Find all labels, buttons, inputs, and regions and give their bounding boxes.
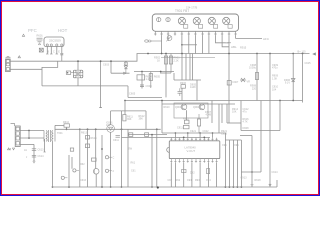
diode D603 xyxy=(124,61,127,73)
svg-text:470u: 470u xyxy=(272,67,278,70)
bridge rectifier D602 xyxy=(73,70,82,78)
junction gnd f xyxy=(233,186,235,188)
junction pin2 lower xyxy=(165,53,167,55)
wire v87.5 xyxy=(87,129,89,187)
capacitor C910 xyxy=(166,36,172,42)
svg-text:C93: C93 xyxy=(187,179,192,182)
label R909 xyxy=(272,75,279,81)
label C908 xyxy=(249,64,257,70)
junction riser 10 xyxy=(212,132,214,134)
label SW xyxy=(128,148,133,151)
svg-text:C96: C96 xyxy=(234,144,239,147)
wire T601 bottom left lead xyxy=(43,139,45,152)
ground arrow v252 xyxy=(251,185,253,187)
wire v146 xyxy=(145,111,147,129)
junction y100 c xyxy=(292,100,294,102)
label IC601 xyxy=(106,122,113,127)
resistor R614 xyxy=(85,136,97,140)
wire right block v241 xyxy=(240,140,242,187)
svg-text:4.7K: 4.7K xyxy=(243,121,248,124)
wire cn row2 xyxy=(20,137,44,139)
junction B+ 294 xyxy=(292,53,294,55)
wire feedback pair top xyxy=(128,134,167,136)
wire v69 xyxy=(68,155,70,187)
svg-text:1.5K: 1.5K xyxy=(272,77,277,80)
resistor R911 xyxy=(183,118,189,124)
resistor R902 xyxy=(154,56,168,64)
node warning mark xyxy=(22,34,24,36)
wire v182b xyxy=(181,88,183,100)
junction gnd c xyxy=(157,186,159,188)
wire right block v239 xyxy=(236,140,238,187)
wire v85 lower label xyxy=(80,163,87,182)
wire v174 xyxy=(173,73,175,80)
IC902 body xyxy=(167,141,220,159)
svg-text:9.1V: 9.1V xyxy=(285,82,290,85)
resistor R912 xyxy=(197,114,200,133)
wire sense bus y129 xyxy=(55,128,161,130)
svg-text:39K: 39K xyxy=(139,118,144,121)
node CN602 hook xyxy=(11,124,15,127)
wire pin5 drop xyxy=(181,36,183,54)
svg-text:C923: C923 xyxy=(221,133,228,136)
wire mid bus y104 xyxy=(162,103,235,105)
label C613 left xyxy=(24,149,28,159)
IC902 bottom pins xyxy=(170,159,218,163)
junction riser 3 xyxy=(183,137,185,139)
svg-text:C911: C911 xyxy=(177,126,183,129)
wire right v270 xyxy=(269,54,271,187)
svg-text:R605: R605 xyxy=(154,75,161,79)
svg-text:R906: R906 xyxy=(180,82,187,85)
wire ground bus xyxy=(53,186,278,188)
label C603 xyxy=(103,64,110,67)
wire pin riser 10 xyxy=(212,133,214,138)
diode D610 xyxy=(105,156,114,160)
diode D613 xyxy=(73,169,79,172)
label R916 xyxy=(243,118,250,124)
svg-text:C613: C613 xyxy=(38,149,45,152)
svg-text:C616: C616 xyxy=(80,179,87,182)
label Q901 xyxy=(175,106,182,109)
wire AC line xyxy=(10,60,100,62)
capacitor C907 xyxy=(227,81,239,85)
junction y129 b xyxy=(95,128,97,130)
junction y100 b xyxy=(279,100,281,102)
wire pin riser 1 xyxy=(174,133,176,138)
T901 focus pot VR1 xyxy=(178,17,188,28)
junction bridge top xyxy=(77,60,79,62)
svg-text:ABL: ABL xyxy=(231,45,237,49)
transistor Q901 xyxy=(181,104,187,110)
wire pin d down xyxy=(191,163,193,187)
wire snub drop xyxy=(110,61,112,73)
label bot right b xyxy=(255,179,262,182)
junction cn a xyxy=(28,130,30,132)
wire low rail xyxy=(128,96,162,98)
flyback transformer T901 body xyxy=(152,14,238,31)
wire pin c down xyxy=(183,163,185,187)
svg-text:C614: C614 xyxy=(38,155,45,158)
label ic top c xyxy=(221,130,228,136)
wire mid rail xyxy=(134,71,174,73)
resistor R605 xyxy=(149,72,160,89)
junction v152 top xyxy=(151,134,153,136)
connector CN601 AC input xyxy=(6,59,11,72)
zener D906 xyxy=(284,79,295,85)
svg-text:C915: C915 xyxy=(305,62,312,65)
wire v125 mid xyxy=(124,101,126,115)
ground arrow left xyxy=(33,161,35,163)
capacitor C612 xyxy=(145,133,149,137)
wire v227 xyxy=(226,104,228,123)
junction gnd g2 xyxy=(241,186,243,188)
wire v121 xyxy=(121,111,123,187)
wire h130 xyxy=(241,130,280,132)
junction riser 1 xyxy=(175,132,177,134)
label bot right a xyxy=(241,177,248,180)
svg-text:C913: C913 xyxy=(241,177,248,180)
svg-text:R921: R921 xyxy=(221,130,228,133)
wire x142 drop xyxy=(141,72,143,89)
junction B+ mid xyxy=(147,53,149,55)
svg-text:C: C xyxy=(53,51,55,54)
label heater xyxy=(226,41,230,45)
wire v152 xyxy=(151,135,153,187)
resistor R903 xyxy=(169,54,180,74)
capacitor C604 xyxy=(140,84,152,88)
label right block xyxy=(222,144,239,147)
thermistor TH601 xyxy=(66,71,73,74)
node cap rail end tick xyxy=(99,107,102,109)
svg-text:104: 104 xyxy=(272,88,277,91)
wire h135 right xyxy=(240,135,252,137)
T901 pins 1-13 xyxy=(154,31,237,35)
wire v280 xyxy=(279,101,281,131)
resistor R908 xyxy=(255,73,258,80)
node live mark xyxy=(18,56,20,58)
junction y129 d xyxy=(156,128,158,130)
wire v261 xyxy=(260,101,262,173)
junction mid rail a xyxy=(141,71,143,73)
label B+ xyxy=(298,49,307,53)
label ic top b xyxy=(203,130,210,133)
wire v212 xyxy=(211,101,213,124)
wire pin8 drop xyxy=(202,36,204,54)
svg-text:2.2K: 2.2K xyxy=(174,59,179,62)
svg-text:C611: C611 xyxy=(113,139,119,142)
label AFC xyxy=(240,37,270,50)
svg-text:4148: 4148 xyxy=(190,86,196,89)
svg-text:V-OUT: V-OUT xyxy=(187,149,196,153)
junction B+ 302 xyxy=(302,53,304,55)
svg-text:AFC: AFC xyxy=(263,37,270,41)
wire pin f down xyxy=(207,163,209,187)
svg-text:R610: R610 xyxy=(63,121,70,124)
label ic top a xyxy=(190,130,197,133)
resistor R610 xyxy=(63,121,70,127)
svg-text:C921: C921 xyxy=(190,130,197,133)
junction pin5 tap xyxy=(181,44,183,46)
capacitor C906 xyxy=(178,88,183,96)
wire right block h140 xyxy=(225,139,241,141)
wire v162 xyxy=(161,101,163,134)
wire x128 drop xyxy=(127,86,129,98)
junction B+ 270 xyxy=(269,53,271,55)
capacitor C614 xyxy=(32,155,44,158)
wire v52 sec xyxy=(52,142,54,188)
junction bus i xyxy=(121,186,123,188)
label bot right c xyxy=(272,171,279,174)
svg-text:39K: 39K xyxy=(127,118,132,121)
wire pin riser 4 xyxy=(187,133,189,138)
wire pin riser 8 xyxy=(203,136,205,138)
IC902 top pins xyxy=(170,138,218,141)
resistor R611 xyxy=(123,115,134,122)
wire v128 low xyxy=(127,129,129,187)
wire pin riser 3 xyxy=(183,136,185,138)
wire v79.8 xyxy=(79,129,81,187)
wire pin b down xyxy=(174,163,176,187)
wire pin11 ABL xyxy=(222,36,229,47)
wire aux y57 xyxy=(161,57,215,59)
svg-text:Q902: Q902 xyxy=(193,106,200,109)
wire pin2 drop xyxy=(161,36,163,54)
connector lug B+ xyxy=(312,52,316,55)
wire h172 xyxy=(241,171,261,173)
wire v110 down xyxy=(110,133,112,188)
svg-text:1K: 1K xyxy=(157,59,160,62)
junction gnd e xyxy=(229,186,231,188)
svg-text:R93: R93 xyxy=(195,179,200,182)
wire right v294 xyxy=(292,54,294,101)
label C912 xyxy=(243,108,250,114)
resistor R906 xyxy=(180,82,187,88)
resistor R619 xyxy=(85,144,89,148)
svg-text:R62: R62 xyxy=(80,163,85,166)
wire pin10 heater xyxy=(216,36,232,43)
wire v219 xyxy=(218,104,220,133)
svg-text:2SC5929: 2SC5929 xyxy=(49,39,61,43)
svg-text:R61: R61 xyxy=(131,162,136,165)
wire v277 xyxy=(276,180,278,187)
wire v186 xyxy=(185,54,187,81)
transistor Q902 xyxy=(199,104,205,110)
capacitor C611 xyxy=(113,136,120,142)
shunt regulator IC601 xyxy=(107,125,115,133)
control block outline xyxy=(174,103,208,118)
wire pin5 tap xyxy=(182,44,197,46)
label C910a xyxy=(272,86,279,92)
wire loop left xyxy=(42,61,128,86)
transformer T601 xyxy=(44,130,55,142)
T901 screen pot VR4 xyxy=(223,17,233,28)
junction y129 a xyxy=(87,128,89,130)
wire T601 sec top xyxy=(55,125,64,130)
junction riser 7 xyxy=(199,132,201,134)
svg-text:R918: R918 xyxy=(255,179,262,182)
svg-text:R601: R601 xyxy=(37,34,44,38)
junction snub xyxy=(110,60,112,62)
junction B+ 229 xyxy=(228,53,230,55)
junction R610 xyxy=(66,128,68,130)
svg-text:B+ 115: B+ 115 xyxy=(298,49,307,53)
svg-text:10K: 10K xyxy=(232,111,237,114)
label row1 xyxy=(131,162,137,173)
T901 focus pot VR2 xyxy=(193,17,203,28)
junction bus h xyxy=(110,186,112,188)
label D907 xyxy=(205,111,212,117)
wire v72 xyxy=(71,157,73,169)
wire pin riser 7 xyxy=(199,133,201,138)
wire v222 xyxy=(221,104,223,123)
junction B+ pin2 xyxy=(161,53,163,55)
junction h172 xyxy=(251,171,253,173)
wire v166 lower xyxy=(165,73,167,97)
wire right block v230 xyxy=(228,140,230,187)
svg-text:R613: R613 xyxy=(81,132,88,135)
label C909 xyxy=(272,64,279,70)
diode D612 xyxy=(61,176,67,179)
junction y100 a xyxy=(124,100,126,102)
resistor R604 xyxy=(137,75,152,82)
svg-text:C604: C604 xyxy=(146,84,153,88)
svg-text:C907: C907 xyxy=(232,81,239,84)
label PFC xyxy=(28,28,37,33)
junction mid rail b xyxy=(160,71,162,73)
wire mid bus y100 xyxy=(125,100,303,102)
junction riser 8 xyxy=(203,137,205,139)
capacitor C602 on leg4 xyxy=(60,54,63,62)
svg-text:D92: D92 xyxy=(190,171,195,174)
wire cn row1 xyxy=(20,130,44,132)
svg-text:154-177B: 154-177B xyxy=(186,6,198,10)
connector CN602 xyxy=(15,126,20,147)
wire pin9 drop xyxy=(208,36,210,54)
label low rail xyxy=(129,92,136,96)
capacitor C911 xyxy=(177,125,189,129)
junction v182 xyxy=(181,53,183,55)
T901 label xyxy=(175,6,198,13)
svg-text:C: C xyxy=(113,156,115,159)
label R908 xyxy=(250,85,257,91)
wire v95 xyxy=(95,129,98,187)
wire v182 xyxy=(181,54,183,81)
junction cn b xyxy=(28,137,30,139)
label leg row xyxy=(48,51,61,54)
label under row xyxy=(168,179,212,182)
wire cn row3 xyxy=(20,143,34,145)
wire v157 xyxy=(156,129,158,187)
svg-text:C605: C605 xyxy=(129,92,136,96)
svg-text:47u: 47u xyxy=(243,111,248,114)
wire v190 xyxy=(189,54,191,81)
junction v102 xyxy=(101,148,103,150)
wire pin a down xyxy=(170,163,172,187)
svg-text:D908: D908 xyxy=(243,127,250,130)
svg-text:C914: C914 xyxy=(272,171,279,174)
wire right block v226 xyxy=(224,133,226,187)
label Q902 xyxy=(193,106,200,109)
label R612 xyxy=(139,115,146,121)
component top v72 xyxy=(70,148,73,151)
capacitor C924 xyxy=(182,169,196,174)
svg-text:zA: zA xyxy=(24,149,27,152)
wire pin12 drop xyxy=(228,36,230,124)
Q601 leg pin2 xyxy=(50,46,52,54)
junction y129 c xyxy=(121,128,123,130)
wire v29 xyxy=(28,131,30,139)
junction gnd d xyxy=(225,186,227,188)
svg-text:C922: C922 xyxy=(203,130,210,133)
svg-text:R910: R910 xyxy=(164,106,171,109)
wire v197 xyxy=(196,80,198,101)
junction bus k xyxy=(52,186,54,188)
wire v186 mid xyxy=(186,110,188,120)
svg-text:SW: SW xyxy=(128,148,133,151)
wire h123 xyxy=(227,122,241,124)
fuse F601 xyxy=(6,55,11,58)
wire v34 xyxy=(33,144,35,161)
T901 screen pot VR3 xyxy=(208,17,218,28)
leg tick row xyxy=(46,53,63,55)
wire pin g down xyxy=(216,163,218,187)
wire R610 drop xyxy=(66,127,68,129)
wire pin e down xyxy=(199,163,201,187)
diode D611 xyxy=(105,169,114,173)
wire AFC out xyxy=(236,38,262,40)
svg-text:C603: C603 xyxy=(103,64,110,67)
svg-text:Q901: Q901 xyxy=(175,106,182,109)
resistor R617 xyxy=(92,158,97,161)
ground arrow v270 xyxy=(269,184,271,186)
svg-text:4148: 4148 xyxy=(205,114,211,117)
wire AC neutral xyxy=(10,68,42,70)
resistor R922 xyxy=(207,169,210,174)
connector bullet P901 xyxy=(145,40,162,42)
Q601 leg pin4 xyxy=(61,46,63,53)
capacitor C613 xyxy=(32,149,44,152)
svg-text:C92: C92 xyxy=(168,179,173,182)
label T601 xyxy=(57,132,63,135)
node spark gap xyxy=(8,148,15,150)
junction bus j xyxy=(151,186,153,188)
wire v102 xyxy=(101,135,103,187)
wire v252 gnd xyxy=(251,136,253,185)
label HOT xyxy=(58,28,68,33)
wire pin7 drop xyxy=(194,36,196,54)
wire ic top bus y133 xyxy=(162,132,226,134)
svg-text:220: 220 xyxy=(252,87,257,90)
wire r pair bottom xyxy=(160,72,171,74)
wire v302 xyxy=(302,54,304,103)
svg-text:C94: C94 xyxy=(206,179,211,182)
junction gnd a xyxy=(68,186,70,188)
pot VR901 xyxy=(240,78,250,84)
junction v162 xyxy=(161,100,163,102)
wire bridge top xyxy=(77,61,79,70)
junction gnd g xyxy=(237,186,239,188)
junction B+ 257 xyxy=(256,53,258,55)
Q601 leg pin3 xyxy=(56,46,58,54)
junction riser 4 xyxy=(187,132,189,134)
svg-text:R915: R915 xyxy=(240,45,247,49)
svg-text:431: 431 xyxy=(106,124,111,127)
transistor Q602 xyxy=(93,169,99,175)
wire h80 xyxy=(174,79,201,81)
svg-text:VR: VR xyxy=(247,81,251,84)
junction gnd b xyxy=(101,186,103,188)
